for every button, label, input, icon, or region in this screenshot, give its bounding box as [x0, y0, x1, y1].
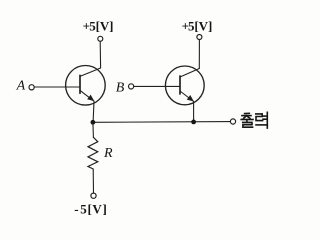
wire: junction to resistor top — [92, 122, 95, 137]
output terminal — [230, 119, 235, 124]
input terminal B — [129, 84, 134, 89]
resistor R — [88, 137, 98, 169]
svg-text:-: - — [74, 201, 78, 216]
input terminal A — [29, 85, 34, 90]
value label +5[V] left — [83, 18, 114, 33]
transistor Q1 (left NPN emitter follower) — [66, 66, 106, 106]
svg-text:5[V]: 5[V] — [80, 201, 107, 216]
wire: resistor bottom to -5V terminal — [92, 169, 94, 193]
wire: left collector to +5V terminal — [99, 41, 101, 68]
wire: Q1 emitter to junction — [92, 101, 95, 122]
wire: output bus — [93, 121, 230, 124]
svg-text:5[V]: 5[V] — [188, 18, 212, 33]
svg-text:R: R — [103, 146, 113, 161]
svg-text:5[V]: 5[V] — [89, 18, 113, 33]
svg-text:B: B — [116, 80, 125, 95]
value label -5[V] — [74, 201, 107, 216]
wire: A to base of Q1 — [34, 86, 80, 88]
terminal +5V left — [98, 36, 103, 41]
value label +5[V] right — [182, 18, 213, 33]
junction node left emitter — [91, 120, 96, 125]
svg-text:A: A — [16, 78, 26, 93]
terminal +5V right — [197, 35, 202, 40]
junction node right emitter — [191, 120, 196, 125]
transistor Q2 (right NPN emitter follower) — [165, 66, 204, 105]
terminal -5V — [91, 193, 96, 198]
node label 출력 (output) drawn as strokes — [241, 112, 267, 128]
wire: Q2 emitter to junction — [193, 102, 195, 122]
wire: right collector to +5V terminal — [198, 40, 200, 69]
wire: B to base of Q2 — [134, 85, 180, 87]
